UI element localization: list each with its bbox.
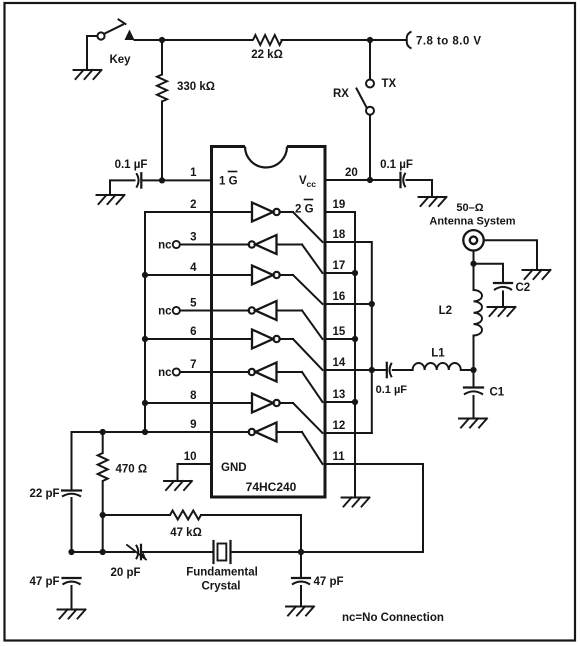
svg-text:1 G: 1 G bbox=[219, 176, 238, 188]
svg-text:6: 6 bbox=[190, 326, 196, 338]
wire pin 1 bbox=[162, 179, 212, 181]
wire pin 2 bbox=[145, 211, 212, 213]
node bus/pin8 bbox=[142, 400, 148, 406]
wire junction to 22k bbox=[162, 39, 253, 41]
node busB/pin16 bbox=[369, 301, 375, 307]
pin 7 label bbox=[190, 359, 196, 371]
capacitor 0.1 µF (Vcc) bbox=[380, 159, 413, 187]
ground (crystal cap) bbox=[286, 607, 314, 616]
buffer U1d (pin 15 to 5) bbox=[212, 301, 323, 339]
pin 6 label bbox=[190, 326, 196, 338]
svg-text:11: 11 bbox=[333, 451, 346, 463]
svg-text:19: 19 bbox=[333, 199, 346, 211]
inductor L2 bbox=[439, 264, 482, 370]
svg-text:7.8 to 8.0 V: 7.8 to 8.0 V bbox=[416, 36, 481, 48]
wire crystal to node bbox=[231, 551, 302, 553]
U1 label GND bbox=[221, 462, 247, 474]
label 50-ohm antenna system bbox=[429, 202, 515, 228]
node nc pin 7 bbox=[158, 367, 180, 379]
node busA/pin13 bbox=[352, 399, 358, 405]
wire Vcc node to cap bbox=[370, 179, 401, 181]
svg-text:22 pF: 22 pF bbox=[29, 488, 59, 500]
svg-text:20: 20 bbox=[345, 167, 358, 179]
node nc pin 5 bbox=[158, 306, 180, 318]
pin 19 label bbox=[333, 199, 346, 211]
wire pin 15 bbox=[325, 338, 355, 340]
pin 11 label bbox=[333, 451, 346, 463]
wire connector to ground bbox=[484, 240, 537, 269]
node trimmer row mid bbox=[100, 549, 106, 555]
svg-text:nc: nc bbox=[158, 367, 172, 379]
pin 14 label bbox=[333, 357, 346, 369]
resistor 330 k&#937; bbox=[157, 40, 215, 180]
switch TX contact bbox=[366, 78, 397, 90]
svg-text:7: 7 bbox=[190, 359, 196, 371]
svg-text:4: 4 bbox=[190, 262, 197, 274]
note nc=No Connection bbox=[342, 612, 444, 624]
key switch S1 'Key' bbox=[97, 20, 134, 67]
pin 20 label bbox=[345, 167, 358, 179]
wire 22pF to trimmer node bbox=[71, 498, 73, 552]
svg-text:16: 16 bbox=[333, 291, 346, 303]
pin 1 label bbox=[190, 167, 197, 179]
buffer U1f (pin 13 to 7) bbox=[212, 363, 323, 403]
wire pin 16 bbox=[325, 303, 372, 305]
capacitor C2 bbox=[494, 282, 530, 307]
node busB/pin14 bbox=[369, 367, 375, 373]
svg-text:Antenna System: Antenna System bbox=[429, 216, 515, 228]
svg-text:GND: GND bbox=[221, 462, 247, 474]
wire cap to ground (pin1) bbox=[110, 180, 135, 195]
wire 47k to crystal node bbox=[300, 515, 302, 552]
node busA/pin17 bbox=[352, 270, 358, 276]
node crystal/pin11 bbox=[298, 549, 304, 555]
svg-text:22 kΩ: 22 kΩ bbox=[251, 49, 283, 61]
wire pin 14 to cap bbox=[325, 369, 387, 371]
svg-text:470 Ω: 470 Ω bbox=[116, 464, 148, 476]
svg-text:74HC240: 74HC240 bbox=[246, 480, 297, 494]
node nc pin 3 bbox=[158, 240, 180, 252]
ground (pin 1 cap) bbox=[97, 195, 125, 204]
svg-text:RX: RX bbox=[333, 88, 349, 100]
node bus/pin4 bbox=[142, 272, 148, 278]
wire 470 to trimmer row bbox=[102, 515, 104, 552]
pin 18 label bbox=[333, 229, 346, 241]
pin 2 label bbox=[190, 199, 196, 211]
svg-text:18: 18 bbox=[333, 229, 346, 241]
svg-text:Crystal: Crystal bbox=[202, 581, 241, 593]
svg-text:14: 14 bbox=[333, 357, 346, 369]
ground (key) bbox=[74, 70, 102, 79]
svg-text:0.1 µF: 0.1 µF bbox=[380, 159, 413, 171]
wire input bus bbox=[144, 212, 146, 432]
svg-text:47 kΩ: 47 kΩ bbox=[170, 527, 202, 539]
svg-text:cc: cc bbox=[307, 179, 317, 189]
capacitor 22 pF bbox=[29, 488, 81, 500]
pin 12 label bbox=[333, 420, 346, 432]
crystal Y1 bbox=[186, 541, 258, 593]
wire pin 10 to ground bbox=[178, 464, 212, 481]
ground (left 47 pF) bbox=[58, 610, 86, 619]
pin 3 label bbox=[190, 232, 196, 244]
pin 15 label bbox=[333, 326, 346, 338]
svg-text:0.1 µF: 0.1 µF bbox=[115, 159, 148, 171]
supply terminal 7.8 to 8.0 V bbox=[407, 32, 482, 49]
wire cap to pin1 node bbox=[143, 179, 162, 181]
wire pin 9 bbox=[72, 431, 212, 433]
U1 label Vcc bbox=[299, 175, 316, 189]
node busA/pin15 bbox=[352, 336, 358, 342]
wire crystal node to pin 11 bbox=[301, 464, 423, 552]
wire pin 18 to bus B bbox=[325, 242, 372, 433]
svg-text:10: 10 bbox=[184, 451, 197, 463]
buffer U1e (pin 6 to 14) bbox=[212, 330, 323, 371]
switch RX contact bbox=[366, 107, 374, 115]
node bus/pin6 bbox=[142, 336, 148, 342]
node key/330k junction bbox=[159, 37, 165, 43]
svg-text:TX: TX bbox=[382, 78, 397, 90]
svg-text:3: 3 bbox=[190, 232, 196, 244]
svg-text:20 pF: 20 pF bbox=[110, 567, 140, 579]
ground (bus A) bbox=[342, 498, 370, 507]
wire pin 4 bbox=[145, 274, 212, 276]
svg-text:50–Ω: 50–Ω bbox=[456, 202, 483, 214]
op-amp U1 74HC240 outline bbox=[212, 147, 326, 498]
wire cap to L1 bbox=[393, 369, 413, 371]
wire supply node to terminal bbox=[370, 39, 406, 41]
ground (pin 10) bbox=[164, 481, 192, 490]
svg-text:nc: nc bbox=[158, 306, 172, 318]
capacitor 0.1 µF (pin 14) bbox=[376, 363, 408, 396]
buffer U1a (pin 2 to 18) bbox=[212, 203, 323, 243]
capacitor 47 pF (crystal) bbox=[292, 552, 344, 606]
node pin1 junction bbox=[159, 177, 165, 183]
pin 10 label bbox=[184, 451, 197, 463]
pin 17 label bbox=[333, 260, 346, 272]
buffer U1b (pin 17 to 3) bbox=[212, 235, 323, 273]
pin 13 label bbox=[333, 389, 346, 401]
pin 5 label bbox=[190, 298, 197, 310]
svg-text:47 pF: 47 pF bbox=[29, 576, 59, 588]
U1 label 1G bbox=[219, 172, 238, 188]
wire node to C2 bbox=[474, 264, 504, 283]
node trimmer row left bbox=[68, 549, 74, 555]
wire pin 7 bbox=[180, 371, 212, 373]
wire supply to TX contact bbox=[369, 40, 371, 79]
svg-text:9: 9 bbox=[190, 419, 196, 431]
resistor 47 k&#937; bbox=[103, 511, 301, 540]
node L1/L2/C1 bbox=[470, 367, 476, 373]
resistor 470 &#937; bbox=[98, 432, 147, 515]
node Vcc junction bbox=[367, 177, 373, 183]
svg-text:nc: nc bbox=[158, 240, 172, 252]
pin 8 label bbox=[190, 390, 197, 402]
svg-text:13: 13 bbox=[333, 389, 346, 401]
wire trimmer row bbox=[72, 551, 135, 553]
wire key circle to ground bbox=[87, 36, 98, 70]
buffer U1h (pin 11 to 9) bbox=[212, 423, 323, 465]
svg-text:330 kΩ: 330 kΩ bbox=[177, 81, 215, 93]
svg-text:17: 17 bbox=[333, 260, 346, 272]
capacitor C1 bbox=[464, 370, 505, 419]
svg-text:47 pF: 47 pF bbox=[314, 576, 344, 588]
trimmer capacitor 20 pF bbox=[110, 545, 146, 579]
svg-text:8: 8 bbox=[190, 390, 197, 402]
wire pin 5 bbox=[180, 310, 212, 312]
wire pin 19 to bus A bbox=[325, 212, 355, 497]
U1 label 74HC240 bbox=[246, 480, 297, 494]
wire L1 to node bbox=[461, 369, 474, 371]
ground (C2) bbox=[488, 307, 516, 316]
capacitor 0.1 µF (pin 1) bbox=[115, 159, 148, 188]
wire cap to ground (Vcc) bbox=[407, 180, 433, 197]
svg-text:L1: L1 bbox=[431, 348, 445, 360]
wire switch to Vcc node bbox=[369, 115, 371, 180]
wire pin 11 bbox=[325, 463, 423, 465]
wire pin9 corner to 22pF bbox=[71, 432, 73, 490]
svg-text:2: 2 bbox=[190, 199, 196, 211]
pin 9 label bbox=[190, 419, 196, 431]
node bus/pin9 bbox=[142, 429, 148, 435]
wire trimmer to crystal bbox=[143, 551, 214, 553]
pin 16 label bbox=[333, 291, 346, 303]
wire pin 6 bbox=[145, 338, 212, 340]
wire pin 17 bbox=[325, 272, 355, 274]
resistor 22 k&#937; bbox=[251, 35, 283, 61]
ground (C1) bbox=[459, 419, 487, 428]
wire key contact to junction bbox=[135, 39, 163, 41]
node antenna junction bbox=[470, 261, 476, 267]
ground (connector) bbox=[523, 270, 551, 279]
wire connector to node bbox=[473, 251, 475, 264]
wire 22k to supply node bbox=[282, 39, 371, 41]
wire pin 20 bbox=[325, 179, 370, 181]
svg-text:C1: C1 bbox=[490, 387, 505, 399]
wire pin 12 bbox=[325, 432, 372, 434]
wire pin 3 bbox=[180, 244, 212, 246]
antenna connector J1 bbox=[463, 230, 483, 250]
buffer U1g (pin 8 to 12) bbox=[212, 394, 323, 434]
svg-text:12: 12 bbox=[333, 420, 346, 432]
svg-text:Key: Key bbox=[109, 54, 131, 66]
svg-text:L2: L2 bbox=[439, 305, 452, 317]
wire 47pF to ground bbox=[71, 586, 73, 609]
svg-text:0.1 µF: 0.1 µF bbox=[376, 384, 408, 396]
svg-text:2 G: 2 G bbox=[295, 204, 314, 216]
svg-text:5: 5 bbox=[190, 298, 197, 310]
switch lever (RX) bbox=[333, 88, 366, 107]
svg-text:C2: C2 bbox=[516, 282, 531, 294]
wire pin 13 bbox=[325, 401, 355, 403]
U1 label 2G bbox=[295, 200, 314, 216]
svg-text:15: 15 bbox=[333, 326, 346, 338]
node supply junction bbox=[367, 37, 373, 43]
node 470/pin9 bbox=[100, 429, 106, 435]
capacitor 47 pF (left) bbox=[29, 576, 80, 588]
svg-text:1: 1 bbox=[190, 167, 197, 179]
buffer U1c (pin 4 to 16) bbox=[212, 266, 323, 305]
svg-text:Fundamental: Fundamental bbox=[186, 567, 258, 579]
node 470/47k bbox=[100, 512, 106, 518]
ground (Vcc cap) bbox=[419, 197, 447, 206]
inductor L1 bbox=[413, 348, 461, 371]
svg-text:nc=No Connection: nc=No Connection bbox=[342, 612, 444, 624]
wire pin 8 bbox=[145, 402, 212, 404]
pin 4 label bbox=[190, 262, 197, 274]
